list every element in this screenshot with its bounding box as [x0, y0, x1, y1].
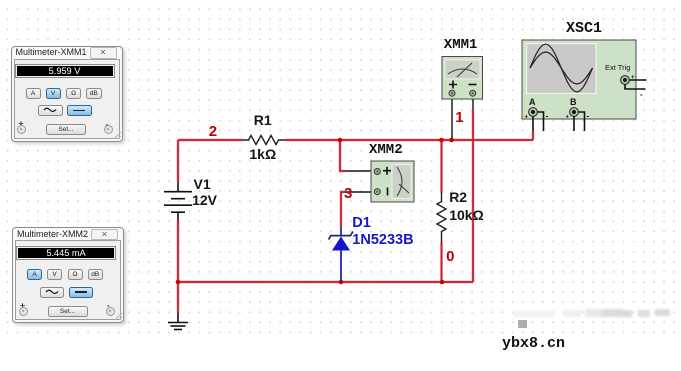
svg-text:+: +: [525, 115, 529, 121]
svg-text:-: -: [587, 112, 590, 121]
svg-text:-: -: [640, 90, 643, 99]
svg-text:+: +: [566, 115, 570, 121]
svg-text:-: -: [546, 112, 549, 121]
svg-text:+: +: [631, 75, 635, 81]
